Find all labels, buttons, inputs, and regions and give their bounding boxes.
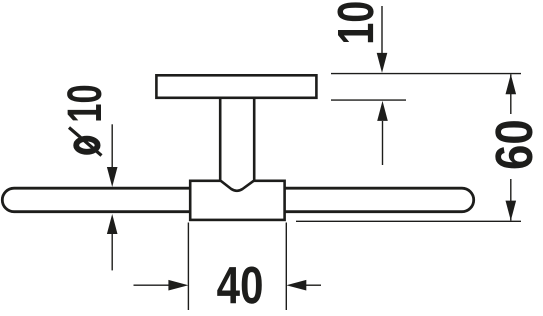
dimension 60: down arrow	[506, 201, 517, 221]
dimension 40: right extension line	[285, 223, 287, 311]
wall plate (top rectangle)	[156, 75, 316, 98]
dimension 60: dimension line (vertical, two segments with text gap)	[510, 74, 512, 114]
label ø10: diameter symbol slash	[69, 128, 102, 156]
dimension 10: upper leader with down arrow	[381, 6, 383, 54]
label ø10: text digits	[67, 86, 101, 121]
label ø10: diameter symbol ring	[76, 139, 97, 152]
dimension 40: left extension line	[187, 223, 189, 311]
dimension 40: right dimension line with left arrow	[306, 284, 321, 286]
dimension 10: lower leader with up arrow	[382, 121, 384, 165]
dimension 10: top extension line (plate top)	[331, 73, 521, 75]
base block (rail holder)	[190, 181, 284, 220]
dimension 60: up arrow	[506, 74, 517, 94]
dimension 60: text label	[495, 121, 532, 168]
dimension 40: left dimension line with right arrow	[134, 284, 170, 286]
dimension 10: bottom extension line (plate bottom)	[331, 99, 406, 101]
label ø10: leader with up arrow to bar bottom	[111, 234, 113, 270]
dimension 40: text label	[217, 267, 262, 304]
bar (towel rail rod, capsule shape)	[2, 188, 473, 212]
dimension 10: text label	[337, 2, 373, 42]
label ø10: leader with down arrow to bar top	[111, 124, 113, 170]
stem (post with rounded cone end)	[220, 97, 254, 191]
dimension 60: bottom extension line (holder bottom)	[296, 220, 521, 222]
